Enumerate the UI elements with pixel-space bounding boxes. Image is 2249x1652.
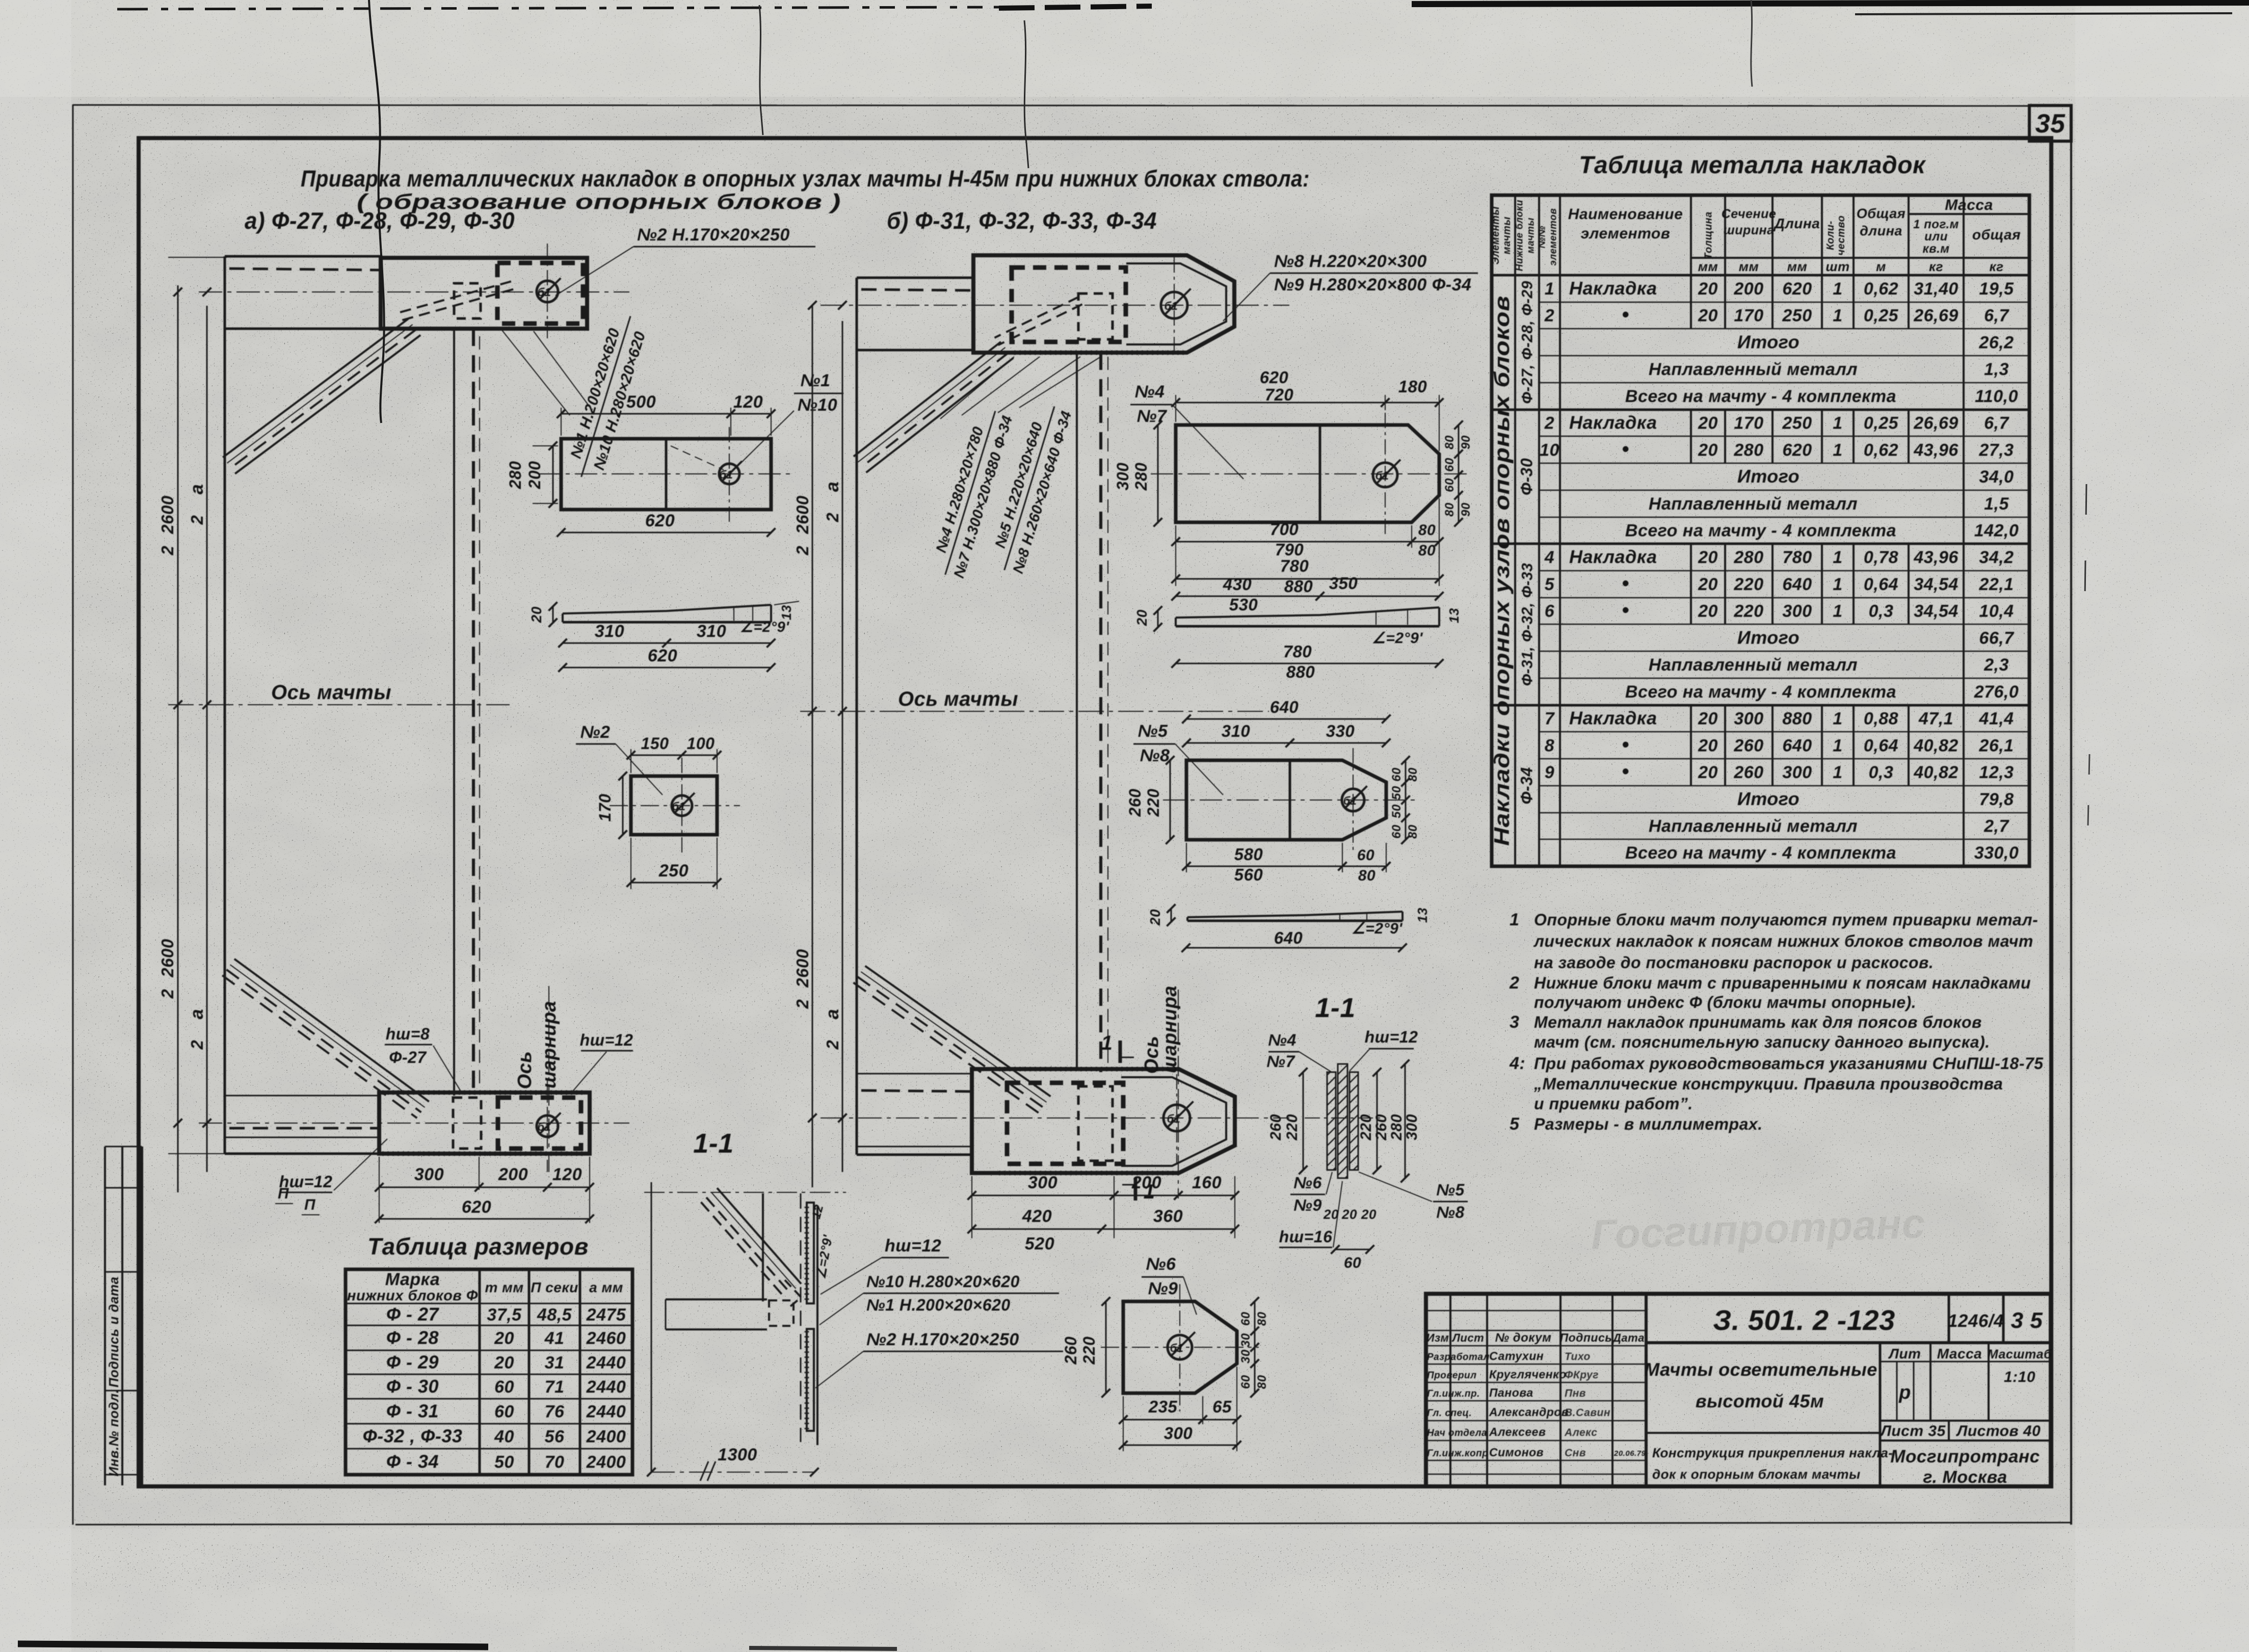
title block: name cell bbox=[1644, 1343, 1893, 1486]
drawing b: top beam bbox=[821, 278, 1289, 350]
drawing b: mast axis bbox=[800, 711, 1269, 712]
drawing b: diagonal brace (top) bbox=[854, 297, 1082, 473]
drawing a: bottom node gusset plate bbox=[379, 1093, 590, 1154]
size table content bbox=[347, 1270, 626, 1472]
drawing b: section cut marks 1-1 bbox=[1101, 1032, 1155, 1203]
section 1-1 detail (right of drawing b) bbox=[1266, 1028, 1468, 1271]
drawing a: diagonal end dashed outline (bottom node) bbox=[453, 1098, 481, 1149]
notes bbox=[1509, 910, 2044, 1134]
detail plate N5/N8 bbox=[1163, 748, 1417, 852]
detail N5/N8: dims bbox=[1126, 698, 1420, 884]
section 1-1 view (bottom middle, of drawing a) bbox=[644, 1182, 1063, 1481]
detail N5/N8: callout bbox=[1133, 722, 1223, 795]
drawing b: plate N8/N9 dashed outline (top node) bbox=[1012, 268, 1126, 342]
left stamp strip bbox=[105, 1147, 142, 1485]
drawing b: rotated leader labels N5/N8 bbox=[986, 401, 1075, 577]
drawing b: bottom node gusset plate (octagonal) bbox=[972, 1069, 1235, 1173]
detail N6/N9: callout bbox=[1142, 1255, 1197, 1315]
drawing a: diagonal brace (top) bbox=[223, 281, 513, 473]
drawing b: bolt at top node bbox=[1161, 257, 1191, 354]
detail N1/N10: callout bbox=[734, 371, 843, 470]
drawing a: label hsh=12 (lower left) bbox=[279, 1139, 387, 1192]
drawing a: top node gusset plate bbox=[381, 258, 587, 329]
detail N1/N10: dims 500,120,620,200/280 bbox=[506, 392, 776, 537]
drawing b: diagonal end dashed outline (top) bbox=[1078, 294, 1113, 339]
detail strip N4 side view bbox=[1134, 574, 1462, 681]
title block: document number strip bbox=[1646, 1294, 2051, 1343]
detail plate N6/N9 bbox=[1101, 1284, 1259, 1411]
drawing b: bottom beam bbox=[821, 1074, 1289, 1155]
drawing a: bottom beam bbox=[199, 1096, 629, 1154]
metal table data bbox=[1540, 278, 2019, 863]
scan artifact: vertical crease through title bbox=[369, 0, 384, 423]
drawing b: rotated leader labels N4/N7 bbox=[927, 406, 1016, 581]
detail strip N5 side view bbox=[1147, 904, 1430, 952]
metal table left rotated labels bbox=[1490, 281, 1536, 846]
drawing a: plate N2 dashed outline (bottom node) bbox=[498, 1098, 581, 1149]
sheet number box 35 bbox=[2029, 105, 2071, 141]
drawing b: diagonal brace (bottom) bbox=[853, 966, 1050, 1113]
drawing a: label hsh=12 (right) bbox=[571, 1031, 633, 1094]
metal table grid bbox=[1492, 195, 2029, 866]
drawing a: left chord bbox=[224, 256, 226, 1154]
drawing a: leader label N2 plate bbox=[555, 225, 815, 296]
drawing b: hinge axis bbox=[1178, 990, 1179, 1192]
outer thin border bbox=[73, 104, 2071, 1525]
drawing a: bolt at bottom node bbox=[537, 1080, 561, 1172]
drawing a: bottom node dimensions 300/200/120, 620 bbox=[375, 1157, 594, 1223]
drawing b: left chord bbox=[856, 278, 858, 1155]
drawing a: mast axis bbox=[168, 704, 510, 705]
detail plate N4/N7 bbox=[1151, 413, 1468, 535]
drawing b: diagonal end dashed outline (bottom) bbox=[1078, 1086, 1113, 1161]
title block: lit/massa/masshtab bbox=[1880, 1343, 2052, 1487]
detail plate N2 bbox=[610, 758, 740, 854]
size table grid bbox=[346, 1269, 632, 1475]
drawing a: hinge axis bbox=[548, 986, 549, 1177]
detail N4/N7: callout bbox=[1130, 382, 1243, 479]
drawing a: mast chord verticals bbox=[453, 329, 455, 1096]
drawing a: plate N2 dashed outline (top node) bbox=[497, 263, 583, 324]
scan artifact: right margin marks bbox=[2084, 484, 2086, 637]
drawing b: label N8/N9 top right bbox=[1223, 252, 1478, 321]
title block frame bbox=[1426, 1294, 2051, 1486]
drawing b: mast chord verticals bbox=[1076, 353, 1078, 1069]
drawing a: diagonal brace (bottom) bbox=[222, 959, 429, 1118]
title block: left signature columns bbox=[1426, 1294, 1646, 1486]
bottom speckle band bbox=[0, 1544, 2249, 1590]
detail strip N1 side view bbox=[528, 601, 799, 672]
drawing a: rotated leader labels N1/N10 bbox=[563, 310, 652, 484]
scan artifact: bottom-left dark line bbox=[18, 1644, 488, 1647]
main frame bbox=[139, 138, 2051, 1486]
drawing a: label hsh=8 / F-27 bbox=[385, 1025, 463, 1095]
detail N4/N7: dims bbox=[1114, 368, 1473, 596]
drawing b: bottom node dimensions bbox=[968, 1173, 1239, 1254]
lighter page margins bbox=[0, 0, 2249, 97]
main title text bbox=[245, 166, 1310, 234]
detail N2: callout and dims bbox=[576, 723, 722, 889]
drawing a: P weld marks bbox=[275, 1185, 320, 1215]
scan artifact: top edge dark dashes bbox=[117, 3, 2249, 14]
drawing b: dashed plate outline (bottom node) bbox=[1007, 1083, 1123, 1164]
detail N6/N9: dims bbox=[1062, 1297, 1269, 1452]
drawing b: bolt at bottom node bbox=[1163, 1074, 1194, 1164]
drawing b: left dimension lines bbox=[793, 301, 847, 1188]
faint ghost stamp bbox=[1590, 1201, 1926, 1259]
drawing b: top node gusset plate (octagonal) bbox=[973, 255, 1234, 353]
drawing a: top beam bbox=[199, 256, 629, 329]
drawing a: bolt at top node bbox=[537, 244, 561, 340]
drawing a: diagonal end dashed outline (top node) bbox=[454, 283, 481, 318]
drawing a: left dimension lines 2600/2 and a/2 bbox=[158, 257, 227, 1192]
detail plate N1/N10 bbox=[538, 427, 793, 522]
metal table headers bbox=[1490, 197, 2021, 274]
